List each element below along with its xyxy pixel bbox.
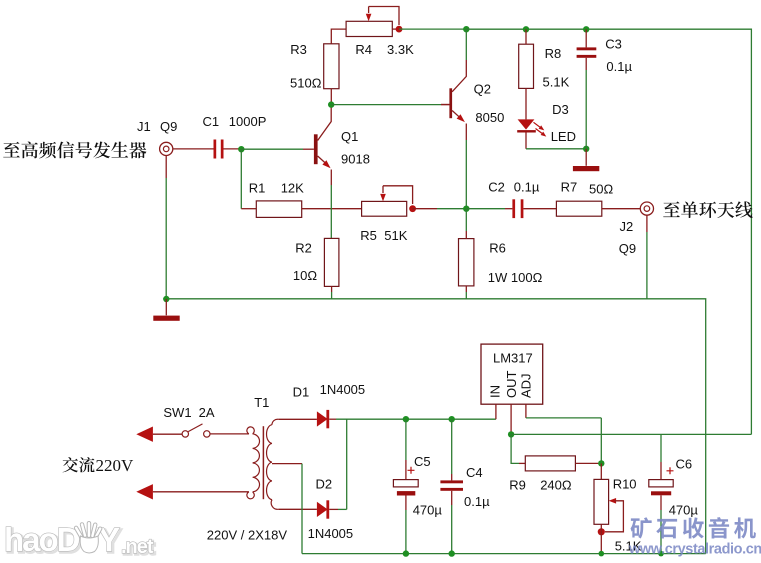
wire R6 to ground rail: [465, 286, 467, 299]
pin OUT lead: [510, 404, 512, 434]
svg-text:1N4005: 1N4005: [320, 382, 366, 397]
wire top rail to right edge and down: [466, 29, 751, 434]
svg-text:1000P: 1000P: [229, 114, 267, 129]
svg-text:50Ω: 50Ω: [589, 181, 613, 196]
node A junction: [238, 146, 244, 152]
svg-text:ADJ: ADJ: [519, 373, 534, 398]
watermark haoDIY.net: [4, 521, 155, 560]
node Q2 collector junction: [463, 26, 469, 32]
value 240Ω: [540, 478, 572, 493]
wire ADJ to node: [526, 418, 601, 464]
resistor R3: [324, 44, 339, 89]
label Q9 at J1: [160, 119, 177, 134]
label C5: [414, 454, 431, 469]
svg-text:2A: 2A: [199, 405, 215, 420]
wire J2 down to ground rail: [646, 215, 648, 299]
LED D3: [517, 119, 546, 136]
svg-text:T1: T1: [254, 395, 269, 410]
label R8: [545, 46, 562, 61]
label LM317: [493, 350, 533, 365]
value 12K: [281, 181, 304, 196]
watermark 矿石收音机: [631, 517, 756, 538]
node R5 right junction (red): [409, 205, 416, 212]
svg-text:470µ: 470µ: [669, 503, 699, 518]
svg-text:D1: D1: [293, 385, 310, 400]
capacitor C3: [577, 29, 597, 149]
wire R2 to ground rail: [331, 286, 333, 298]
capacitor C5 electrolytic: [393, 419, 418, 553]
node ADJ junction: [598, 460, 604, 466]
wire OUT down to R9: [511, 434, 525, 463]
svg-text:Y: Y: [98, 521, 120, 558]
svg-text:.net: .net: [121, 536, 154, 558]
node R4 right junction (red): [396, 26, 403, 33]
value 50Ω: [589, 181, 613, 196]
node Q1 collector junction: [328, 101, 334, 107]
wire collector node to Q2 base: [331, 104, 449, 106]
wire C1 to node A: [224, 148, 242, 150]
capacitor C1: [214, 140, 224, 159]
value 2A: [199, 405, 215, 420]
svg-text:R6: R6: [489, 240, 506, 255]
pin label OUT: [504, 371, 519, 399]
wire C2 to R7: [523, 208, 556, 210]
svg-text:220V: 220V: [96, 456, 135, 475]
wire R8 top lead: [525, 29, 527, 44]
transistor Q2: [441, 29, 466, 122]
value 10Ω: [293, 268, 317, 283]
svg-text:220V / 2X18V: 220V / 2X18V: [207, 528, 288, 543]
switch SW1: [153, 424, 249, 437]
svg-text:IN: IN: [487, 385, 502, 398]
wire Q1 emitter down to R2: [330, 170, 332, 239]
node R8 top junction: [523, 26, 529, 32]
label R9: [509, 478, 526, 493]
svg-text:C6: C6: [676, 457, 693, 472]
svg-text:Q2: Q2: [474, 81, 491, 96]
wire secondary top to D1: [278, 418, 317, 420]
node Q2 emitter junction: [463, 206, 469, 212]
wire J1 to C1: [173, 148, 214, 150]
wire R10 to bottom rail: [600, 524, 602, 553]
svg-text:51K: 51K: [384, 228, 407, 243]
resistor R7: [556, 201, 601, 216]
label C1: [203, 114, 220, 129]
node ground rail left junction: [163, 296, 169, 302]
capacitor C6 electrolytic: [649, 434, 673, 553]
label Q1: [341, 129, 358, 144]
svg-text:R1: R1: [249, 181, 266, 196]
value 0.1µ of C2: [514, 179, 540, 194]
plus sign C5: [408, 467, 415, 474]
label C4: [466, 465, 483, 480]
label R3: [290, 42, 307, 57]
value 3.3K: [387, 42, 414, 57]
node C4 top junction: [449, 416, 455, 422]
wire R8 to LED: [525, 88, 527, 119]
wire R9 to ADJ node: [575, 462, 601, 464]
label J1: [137, 119, 151, 134]
label Q9 at J2: [619, 241, 636, 256]
wire Q2 emitter down: [465, 124, 467, 209]
wire D1 to LM317 IN row: [329, 418, 496, 420]
wire node to C2: [466, 208, 512, 210]
node C6 bottom junction: [658, 551, 664, 557]
svg-text:LED: LED: [551, 129, 576, 144]
wire R3 bottom to collector node: [330, 89, 332, 105]
wire node A to Q1 base: [241, 148, 314, 150]
svg-text:OUT: OUT: [504, 371, 519, 399]
svg-text:R2: R2: [295, 241, 312, 256]
node OUT junction: [508, 431, 514, 437]
label 至单环天线 output: [663, 201, 752, 218]
svg-text:J1: J1: [137, 119, 151, 134]
pin label IN: [487, 385, 502, 398]
transformer T1: [247, 419, 278, 509]
svg-text:D3: D3: [552, 102, 569, 117]
label C3: [605, 37, 622, 52]
svg-text:R3: R3: [290, 42, 307, 57]
wire R4 right lead: [392, 28, 399, 30]
value 0.1µ of C4: [464, 494, 490, 509]
transistor Q1: [314, 105, 331, 169]
node C4 bottom junction: [449, 550, 455, 556]
label R2: [295, 241, 312, 256]
ground symbol at J1: [153, 299, 179, 321]
value 9018: [341, 151, 370, 166]
svg-text:R4: R4: [355, 42, 372, 57]
svg-text:D2: D2: [316, 477, 333, 492]
connector J2: [640, 202, 653, 215]
node C3 bottom junction: [583, 146, 589, 152]
wire R7 to J2: [602, 208, 640, 210]
label J2: [620, 219, 634, 234]
wire upper ground rail: [166, 299, 705, 554]
plus sign C6: [667, 467, 674, 474]
label LED: [551, 129, 576, 144]
label R6: [489, 240, 506, 255]
svg-text:C2: C2: [488, 179, 505, 194]
pin label ADJ: [519, 373, 534, 398]
wire J1 down: [165, 156, 167, 299]
value 510Ω: [290, 76, 322, 91]
potentiometer R5: [362, 201, 407, 216]
svg-text:1W 100Ω: 1W 100Ω: [488, 270, 543, 285]
regulator U1 LM317: [481, 344, 543, 404]
svg-text:9018: 9018: [341, 151, 370, 166]
value 51K: [384, 228, 407, 243]
svg-text:510Ω: 510Ω: [290, 76, 322, 91]
resistor R8: [519, 44, 534, 88]
svg-text:SW1: SW1: [163, 405, 191, 420]
label D2: [316, 477, 333, 492]
value 5.1K of R10: [615, 539, 642, 554]
svg-text:haoD: haoD: [4, 521, 80, 558]
label 交流220V: [63, 456, 134, 475]
value 5.1K of R8: [543, 75, 570, 90]
capacitor C4: [440, 419, 463, 553]
label R4: [355, 42, 372, 57]
value 220V / 2X18V: [207, 528, 288, 543]
value 0.1µ of C3: [606, 59, 632, 74]
wire R5 to Q2 emitter node: [413, 208, 467, 210]
R5 wiper arrow and loop: [380, 186, 412, 204]
watermark www.crystalradio.cn: [628, 542, 761, 558]
value 1N4005 of D1: [320, 382, 366, 397]
wire D2 to link: [329, 508, 347, 510]
svg-text:Q1: Q1: [341, 129, 358, 144]
wire AC bottom to transformer: [153, 491, 249, 493]
svg-text:Q9: Q9: [619, 241, 636, 256]
svg-text:R5: R5: [360, 228, 377, 243]
label R7: [561, 179, 578, 194]
node C5 bottom junction: [403, 550, 409, 556]
node C3 top junction: [583, 26, 589, 32]
value 1000P: [229, 114, 267, 129]
resistor R6: [459, 239, 474, 286]
svg-text:10Ω: 10Ω: [293, 268, 317, 283]
wire OUT to right rail (+V): [511, 433, 751, 435]
label R1: [249, 181, 266, 196]
node C5 top junction: [403, 416, 409, 422]
wire secondary bottom to D2: [278, 508, 317, 510]
resistor R2: [324, 238, 339, 286]
svg-text:C3: C3: [605, 37, 622, 52]
svg-text:C1: C1: [203, 114, 220, 129]
wire R4 to Q2 collector node: [399, 28, 466, 30]
svg-text:Q9: Q9: [160, 119, 177, 134]
value 470µ of C6: [669, 503, 699, 518]
svg-text:240Ω: 240Ω: [540, 478, 572, 493]
svg-text:C5: C5: [414, 454, 431, 469]
label D1: [293, 385, 310, 400]
value 470µ of C5: [413, 503, 443, 518]
connector J1: [160, 142, 173, 155]
svg-text:R7: R7: [561, 179, 578, 194]
resistor R9: [525, 456, 575, 471]
label SW1: [163, 405, 191, 420]
wire node A down to R1: [241, 149, 256, 209]
label D3: [552, 102, 569, 117]
svg-text:3.3K: 3.3K: [387, 42, 414, 57]
diode D2: [317, 500, 329, 518]
node R10 rail junction: [599, 551, 605, 557]
value 1N4005 of D2: [308, 526, 354, 541]
label C6: [676, 457, 693, 472]
wire bottom ground rail: [302, 553, 706, 555]
pin ADJ lead: [525, 404, 527, 418]
label R5: [360, 228, 377, 243]
svg-text:0.1µ: 0.1µ: [514, 179, 540, 194]
label T1: [254, 395, 269, 410]
wire R1 to R5: [302, 208, 362, 210]
AC input arrow top: [136, 427, 153, 442]
svg-text:5.1K: 5.1K: [543, 75, 570, 90]
svg-text:R8: R8: [545, 46, 562, 61]
label C2: [488, 179, 505, 194]
node R10 bottom junction (red): [598, 528, 605, 535]
value 1W 100Ω: [488, 270, 543, 285]
label R10: [613, 477, 637, 492]
AC input arrow bottom: [136, 484, 153, 499]
svg-text:J2: J2: [620, 219, 634, 234]
wire LED to ground node: [526, 133, 586, 149]
svg-text:470µ: 470µ: [413, 503, 443, 518]
svg-text:LM317: LM317: [493, 350, 533, 365]
svg-text:0.1µ: 0.1µ: [464, 494, 490, 509]
wire center tap down: [272, 464, 302, 554]
svg-text:www.crystalradio.cn: www.crystalradio.cn: [628, 542, 761, 558]
potentiometer R4: [346, 21, 392, 36]
diode D1: [317, 410, 329, 428]
capacitor C2: [512, 199, 523, 218]
wire node down to R6: [465, 209, 467, 239]
R10 wiper arrow and loop: [605, 498, 623, 532]
R4 wiper arrow and loop: [366, 7, 399, 26]
resistor R1: [256, 201, 301, 218]
label Q2: [474, 81, 491, 96]
ground symbol under LED: [573, 149, 599, 171]
svg-text:R9: R9: [509, 478, 526, 493]
node 至高频信号发生器 input label: [3, 141, 146, 158]
wire R3 top to R4: [331, 29, 346, 44]
svg-text:0.1µ: 0.1µ: [606, 59, 632, 74]
pin IN lead: [495, 404, 497, 419]
potentiometer R10: [594, 463, 609, 524]
svg-text:12K: 12K: [281, 181, 304, 196]
svg-text:8050: 8050: [475, 110, 504, 125]
svg-text:R10: R10: [613, 477, 637, 492]
value 8050: [475, 110, 504, 125]
svg-text:1N4005: 1N4005: [308, 526, 354, 541]
svg-text:C4: C4: [466, 465, 483, 480]
wire rectifier link D1-D2: [346, 419, 348, 509]
